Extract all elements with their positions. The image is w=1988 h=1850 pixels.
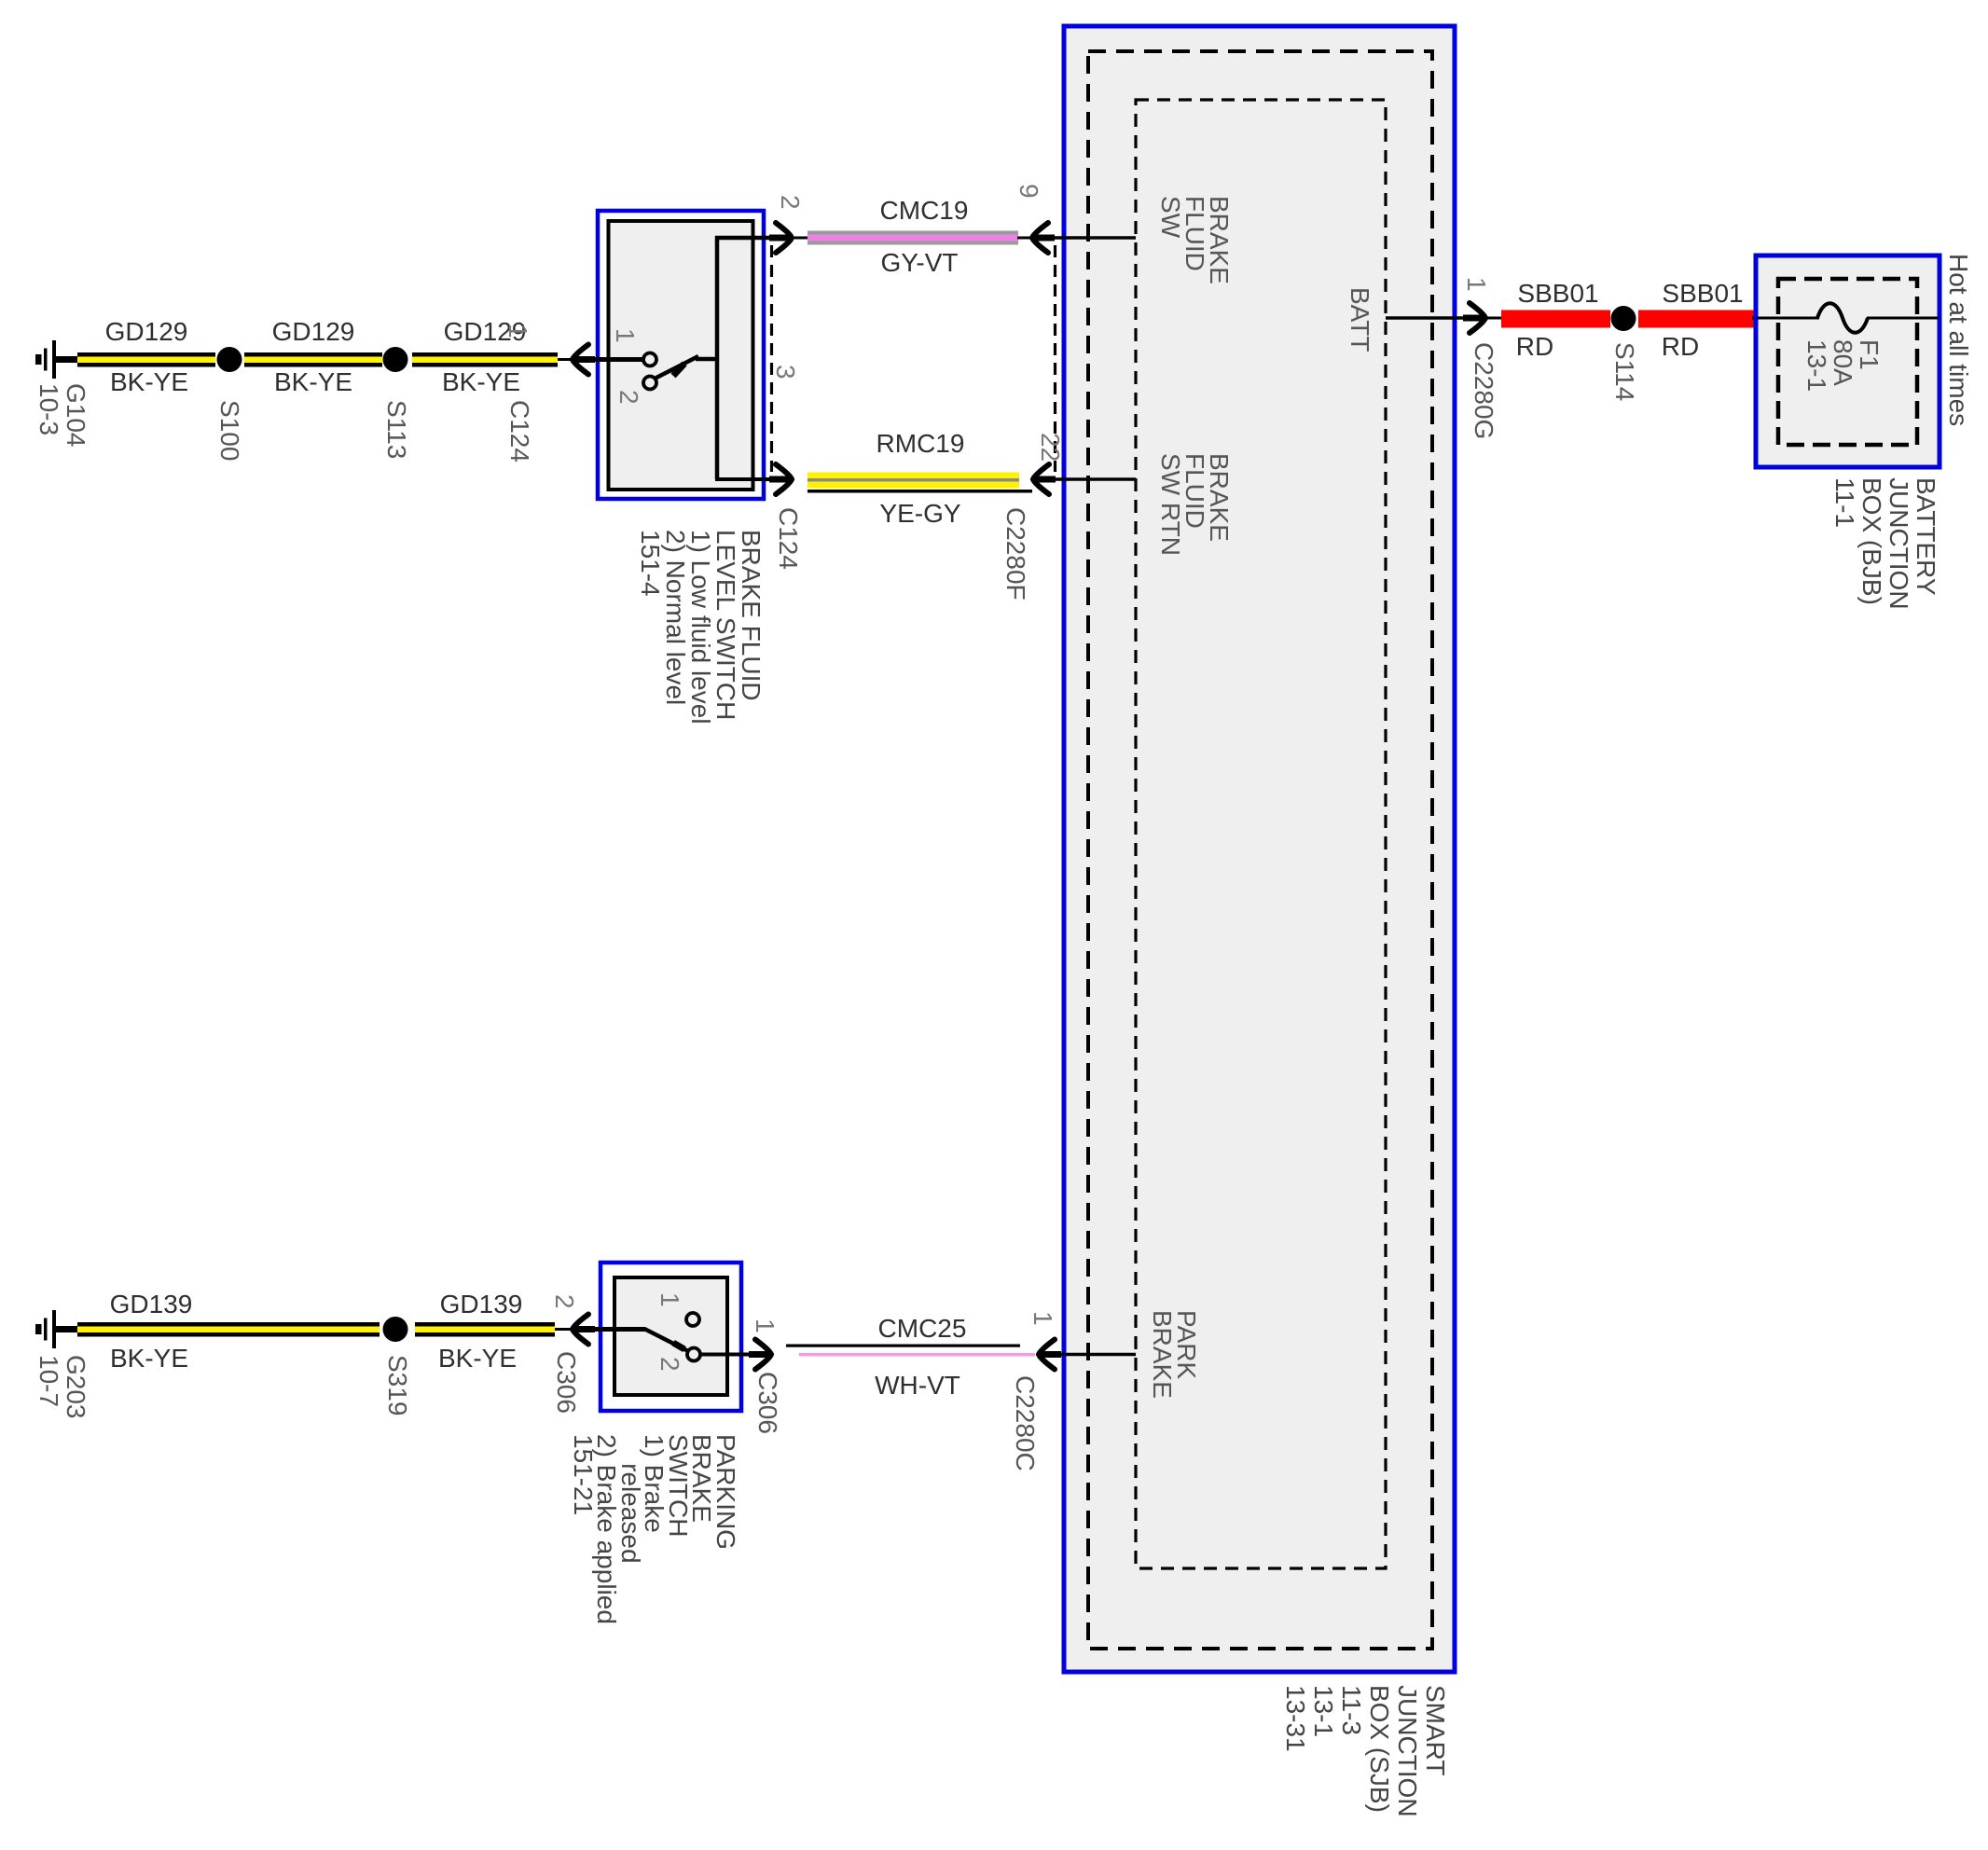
pin 1 at C2280C: [1029, 1311, 1056, 1326]
wire GD129 segment 3 (BK-YE): [412, 352, 573, 367]
wire name RMC19: [877, 431, 965, 457]
wire GD129 segment 1 (BK-YE): [77, 352, 215, 367]
label S319: [384, 1355, 410, 1415]
parking brake switch outer box: [601, 1263, 741, 1411]
wire name GD139 #1: [110, 1291, 193, 1318]
label G203 10-7: [35, 1355, 90, 1419]
ground G104: [35, 340, 78, 379]
connector C2280C pin 1 arrow: [1038, 1340, 1061, 1370]
brake fluid level switch inner box: [609, 221, 753, 490]
pin 2 at CMC19: [777, 195, 803, 210]
wire name GD139 #2: [440, 1291, 523, 1318]
connector C2280G pin 1 arrow: [1463, 303, 1486, 333]
wire name CMC25: [878, 1316, 967, 1342]
wire GD129 segment 2 (BK-YE): [244, 352, 382, 367]
label G104 10-3: [35, 383, 90, 448]
wire name CMC19: [880, 198, 969, 224]
wire SBB01 RD segment 2: [1638, 311, 1759, 328]
wire color BK-YE #1: [110, 369, 188, 395]
wire name SBB01 #1: [1517, 281, 1598, 307]
label C306: [553, 1351, 579, 1414]
label C2280F: [1002, 507, 1029, 601]
wire color BK-YE #2: [274, 369, 352, 395]
label C2280C: [1012, 1375, 1038, 1471]
connector C124 pin 3 arrow: [769, 464, 793, 494]
net BRAKE FLUID SW: [1158, 196, 1231, 284]
label SMART JUNCTION BOX (SJB): [1281, 1685, 1449, 1817]
label C306 #2: [754, 1372, 780, 1434]
switch blade: [655, 356, 719, 379]
fuse label F1 80A 13-1: [1803, 339, 1882, 392]
splice S114: [1611, 306, 1636, 331]
wire color RD #2: [1662, 334, 1699, 360]
wire RMC19 YE-GY: [808, 473, 1032, 493]
splice S113: [383, 347, 408, 372]
label PARKING BRAKE SWITCH: [572, 1434, 739, 1624]
label S114: [1611, 342, 1637, 401]
wire name GD129 #2: [272, 319, 355, 345]
net BRAKE FLUID SW RTN: [1158, 453, 1231, 556]
fuse F1 80A: [1757, 303, 1939, 333]
dashed harness line left: [770, 245, 773, 472]
wire name GD129 #3: [444, 319, 527, 345]
pin 9 label: [1015, 184, 1042, 199]
wire parking switch output: [700, 1353, 759, 1357]
label S113: [383, 400, 409, 459]
label S100: [216, 400, 242, 461]
parking switch pin 1 label: [656, 1292, 683, 1307]
net PARK BRAKE: [1150, 1310, 1198, 1399]
parking switch blade: [644, 1329, 690, 1352]
wire color RD #1: [1516, 334, 1553, 360]
label C124: [506, 400, 532, 462]
wire GD139 segment 2 (BK-YE): [415, 1322, 573, 1337]
connector C124 pin 2 arrow: [769, 223, 793, 253]
switch pin 2 label: [615, 390, 642, 405]
wire switch internal bus: [715, 236, 780, 479]
parking brake switch inner box: [614, 1277, 727, 1395]
wire name SBB01 #2: [1662, 281, 1743, 307]
label C124 #2: [775, 507, 801, 570]
SJB inner dashed boundary: [1136, 100, 1386, 1568]
wire SBB01 RD segment 1: [1487, 311, 1610, 328]
label Hot at all times: [1945, 254, 1971, 426]
smart junction box (SJB): [1064, 26, 1455, 1672]
parking switch contact 1: [686, 1313, 699, 1326]
wire BATT: [1386, 316, 1471, 320]
pin 1 at C2280G: [1463, 277, 1489, 292]
wire CMC19 GY-VT: [794, 231, 1032, 245]
label BRAKE FLUID LEVEL SWITCH: [638, 530, 764, 725]
ground G203: [35, 1310, 78, 1348]
switch pin 1 label: [612, 328, 638, 343]
wire SJB brake fluid sw: [1052, 236, 1136, 240]
dashed harness line right: [1054, 245, 1056, 472]
BJB fuse dashed boundary: [1778, 279, 1917, 445]
wire switch pin 1 stub: [591, 357, 644, 362]
label C2280G: [1470, 342, 1497, 439]
wire color YE-GY: [879, 501, 960, 527]
wire color BK-YE bottom #2: [438, 1346, 517, 1372]
wire color WH-VT: [875, 1373, 960, 1399]
switch contact 2: [643, 377, 656, 390]
switch contact 1: [643, 353, 656, 366]
wire CMC25 WH-VT: [786, 1345, 1035, 1357]
pin 1 at C306 right: [752, 1318, 778, 1333]
wire SJB park brake: [1059, 1353, 1136, 1357]
pin 1 at C124: [504, 324, 531, 338]
brake fluid level switch U1 outer box: [598, 211, 764, 499]
wire GD139 segment 1 (BK-YE): [77, 1322, 380, 1337]
pin 22 label: [1037, 433, 1063, 462]
wire SJB brake fluid sw rtn: [1052, 477, 1136, 481]
wire color GY-VT: [881, 250, 959, 276]
pin 2 at C306: [551, 1294, 577, 1309]
connector C124 pin 1 arrow: [572, 345, 595, 375]
label BATTERY JUNCTION BOX (BJB) 11-1: [1831, 477, 1940, 610]
parking switch pin 2 label: [656, 1357, 683, 1372]
wire name GD129 #1: [105, 319, 188, 345]
parking switch contact 2: [687, 1348, 700, 1361]
wire parking switch pin 2 stub: [591, 1327, 645, 1332]
connector C2280F pin 22 arrow: [1032, 464, 1056, 494]
net BATT: [1346, 287, 1373, 352]
pin 3 label: [772, 365, 798, 380]
wire color BK-YE #3: [442, 369, 520, 395]
wire color BK-YE bottom #1: [110, 1346, 188, 1372]
splice S319: [383, 1317, 408, 1342]
connector C306 pin 1 arrow: [749, 1340, 772, 1370]
battery junction box (BJB): [1756, 255, 1940, 467]
splice S100: [217, 347, 242, 372]
connector C2280F pin 9 arrow: [1031, 223, 1055, 253]
SJB outer dashed boundary: [1088, 51, 1432, 1649]
connector C306 pin 2 arrow: [572, 1315, 595, 1345]
